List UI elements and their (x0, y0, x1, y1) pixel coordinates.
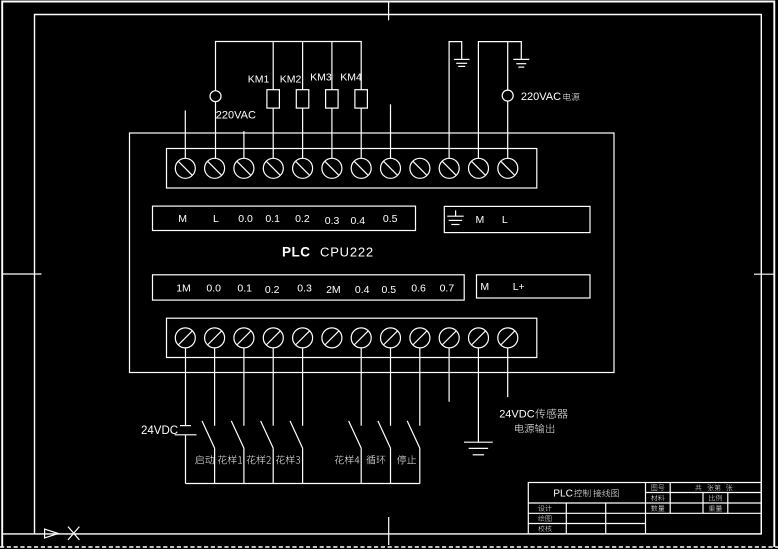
contactor coil KM3 (331, 42, 333, 90)
svg-text:0.0: 0.0 (238, 213, 253, 225)
input supply box M L+ (477, 275, 591, 298)
datum X mark (68, 527, 79, 540)
center tick right (754, 273, 774, 275)
datum arrow bottom-left (45, 529, 59, 538)
wire: terminal 12 drop (507, 42, 509, 91)
title block center divider (645, 483, 647, 534)
svg-text:0.3: 0.3 (297, 283, 312, 295)
svg-text:24VDC: 24VDC (499, 409, 535, 421)
switch tingzhi (stop) (419, 348, 421, 426)
bottom terminal strip (167, 318, 537, 357)
wire: terminal 3 stub (243, 131, 245, 158)
terminals top row (175, 158, 518, 178)
top terminal strip (167, 149, 537, 189)
wire: terminal 12 stub (507, 348, 509, 397)
center tick top (388, 2, 390, 21)
switch huayang3 (302, 348, 304, 426)
inner border bottom line (2, 533, 761, 535)
svg-text:KM4: KM4 (340, 72, 362, 84)
svg-text:0.1: 0.1 (237, 283, 252, 295)
svg-text:0.4: 0.4 (350, 215, 365, 227)
svg-text:0.5: 0.5 (381, 284, 396, 296)
sensor supply box M L with ground (444, 206, 590, 232)
contactor coil KM4 (360, 108, 362, 158)
title block left rows (528, 502, 645, 504)
svg-text:24VDC: 24VDC (141, 425, 178, 437)
svg-text:KM3: KM3 (310, 72, 332, 84)
terminals bottom row (175, 328, 518, 348)
wire: terminal 8 stub (390, 104, 392, 158)
svg-text:KM1: KM1 (248, 74, 270, 86)
ground symbol top-right (513, 58, 529, 60)
output label box M L 0.0-0.5 (153, 206, 416, 230)
center tick left (2, 273, 41, 275)
wire: terminal 10 stub (448, 348, 450, 402)
svg-text:0.1: 0.1 (265, 213, 280, 225)
wire: terminal 11 bus to ground (478, 42, 521, 159)
node: 220VAC terminal circle (210, 91, 221, 102)
svg-text:220VAC: 220VAC (521, 91, 561, 103)
wire: terminal 1 to battery (185, 348, 187, 426)
ground symbol sensor supply (464, 441, 493, 443)
svg-text:L: L (213, 213, 219, 225)
svg-text:0.6: 0.6 (411, 283, 426, 295)
svg-text:0.5: 0.5 (383, 213, 398, 225)
svg-text:PLC: PLC (282, 245, 311, 260)
svg-text:1M: 1M (176, 283, 191, 295)
svg-text:2M: 2M (326, 284, 341, 296)
switch huayang4 (360, 348, 362, 426)
wire: common bottom bus (186, 483, 420, 485)
title block right rows (646, 492, 762, 494)
wire: terminal 10 to ground (449, 42, 462, 159)
svg-text:220VAC: 220VAC (216, 109, 256, 121)
svg-text:M: M (476, 214, 485, 226)
wire: circle to terminal 2 (215, 101, 217, 158)
svg-text:L: L (502, 214, 508, 226)
switch huayang2 (272, 348, 274, 426)
svg-text:CPU222: CPU222 (320, 245, 374, 260)
svg-text:0.3: 0.3 (325, 215, 340, 227)
center tick bottom (388, 517, 390, 545)
node: 220VAC supply terminal circle (502, 90, 513, 101)
wire: top bus to contactors (216, 42, 362, 91)
svg-text:M: M (480, 281, 489, 293)
svg-text:0.2: 0.2 (295, 213, 310, 225)
wire: input I0.0 stub (184, 110, 186, 158)
svg-text:0.7: 0.7 (440, 283, 455, 295)
svg-text:KM2: KM2 (280, 74, 302, 86)
title block outline (528, 483, 761, 534)
input label box 1M 0.0-0.7 (153, 275, 465, 300)
wire: terminal 11 to ground (477, 348, 479, 442)
svg-text:M: M (178, 213, 187, 225)
svg-text:0.0: 0.0 (206, 283, 221, 295)
switch huayang1 (243, 348, 245, 426)
contactor coil KM1 (272, 42, 274, 90)
ground symbol top-left (454, 58, 470, 60)
svg-text:0.4: 0.4 (355, 284, 370, 296)
battery 24VDC (180, 425, 191, 427)
switch qidong (start) (214, 348, 216, 426)
contactor coil KM2 (302, 42, 304, 90)
PLC CPU222 outer box (130, 133, 615, 373)
svg-text:0.2: 0.2 (265, 284, 280, 296)
outer border bottom dashed edge (0, 546, 778, 548)
switch xunhuan (cycle) (390, 348, 392, 426)
svg-text:L+: L+ (513, 281, 525, 293)
ground symbol in box (455, 210, 457, 216)
svg-text:PLC: PLC (553, 489, 573, 500)
